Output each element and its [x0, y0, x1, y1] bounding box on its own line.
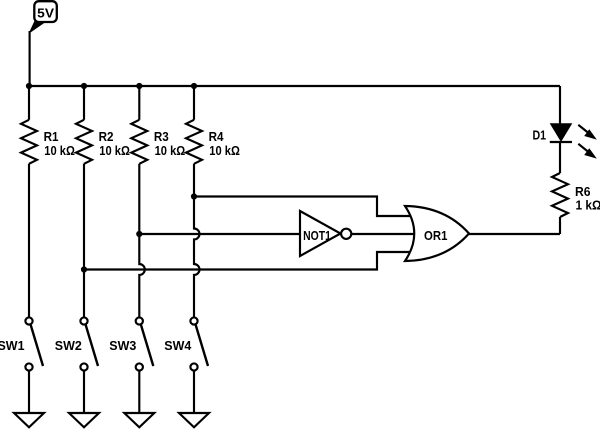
svg-text:D1: D1 — [533, 128, 547, 142]
svg-text:10 kΩ: 10 kΩ — [155, 144, 186, 158]
svg-text:SW1: SW1 — [0, 339, 25, 353]
svg-text:1 kΩ: 1 kΩ — [576, 199, 600, 213]
svg-text:SW3: SW3 — [109, 339, 136, 353]
svg-text:SW2: SW2 — [55, 339, 82, 353]
svg-text:R6: R6 — [575, 185, 591, 199]
svg-text:10 kΩ: 10 kΩ — [209, 144, 240, 158]
svg-text:10 kΩ: 10 kΩ — [99, 144, 130, 158]
svg-text:R3: R3 — [154, 130, 169, 144]
svg-text:5V: 5V — [37, 6, 55, 20]
svg-text:SW4: SW4 — [164, 339, 191, 353]
svg-text:10 kΩ: 10 kΩ — [44, 144, 75, 158]
svg-text:OR1: OR1 — [424, 229, 447, 243]
svg-text:R1: R1 — [44, 130, 59, 144]
svg-text:R4: R4 — [209, 130, 224, 144]
svg-text:R2: R2 — [99, 130, 114, 144]
svg-text:NOT1: NOT1 — [303, 229, 331, 243]
